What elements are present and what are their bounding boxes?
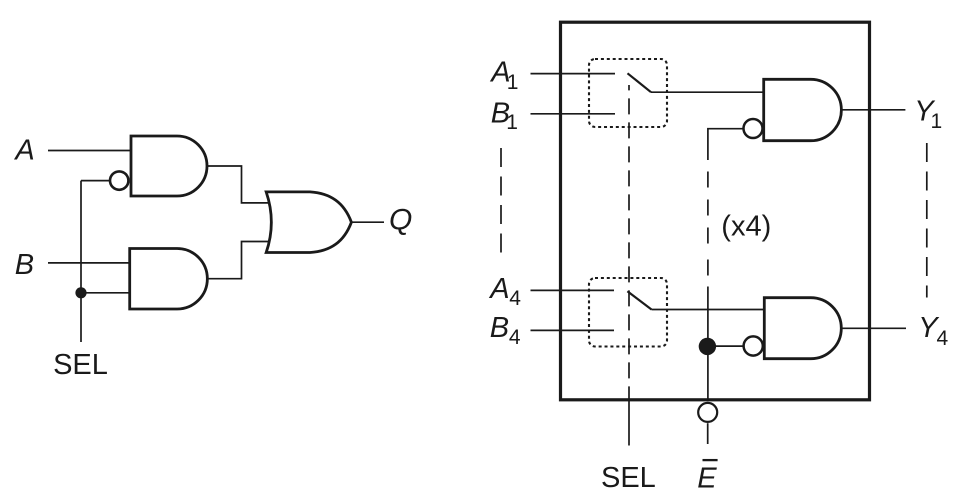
svg-text:B: B: [490, 312, 509, 344]
svg-text:A: A: [488, 273, 509, 305]
svg-text:1: 1: [931, 110, 943, 133]
svg-text:SEL: SEL: [53, 349, 108, 381]
svg-text:B: B: [15, 249, 34, 281]
svg-text:Q: Q: [389, 203, 412, 236]
svg-text:1: 1: [507, 71, 519, 94]
svg-text:4: 4: [509, 326, 521, 349]
svg-text:1: 1: [506, 111, 518, 134]
svg-text:A: A: [13, 135, 34, 167]
svg-text:E: E: [697, 463, 717, 495]
svg-text:4: 4: [509, 287, 521, 310]
svg-text:4: 4: [937, 327, 949, 350]
svg-text:SEL: SEL: [601, 462, 656, 494]
svg-text:(x4): (x4): [721, 211, 771, 243]
